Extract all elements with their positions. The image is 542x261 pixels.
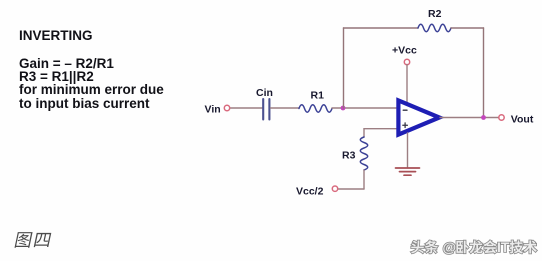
terminal Vout [499,115,504,120]
wire R3 to op-amp noninverting input [364,128,396,130]
terminal Vcc/2 [332,186,337,191]
terminal Vin [224,105,229,110]
watermark glyph 术 [524,240,537,253]
wire R3 top vertical [363,129,365,137]
resistor R1 [299,105,332,112]
wire R3 bottom vertical [363,170,365,189]
svg-text:Vin: Vin [205,104,221,116]
wire R3 to Vcc/2 terminal [338,188,364,190]
resistor R3 [360,137,367,170]
watermark glyph 头 [411,241,424,254]
figure caption 图四 [15,232,52,248]
watermark 头条@卧龙会IT技术 [411,239,537,255]
svg-text:R2: R2 [428,8,442,20]
svg-text:Vout: Vout [511,114,534,126]
wire Vin to Cin [230,107,263,109]
wire R1 to op-amp inverting input [332,107,396,109]
wire op-amp to ground [407,133,409,168]
op-amp plus sign [403,123,408,128]
svg-text:+Vcc: +Vcc [392,44,417,56]
junction node at R1 / feedback [341,106,346,111]
svg-text:R1: R1 [311,89,325,101]
caption glyph 四 [34,233,52,247]
watermark glyph 条 [425,240,438,253]
wire Cin to R1 [271,107,300,109]
svg-text:Cin: Cin [256,87,273,99]
formula text block [19,57,164,111]
heading INVERTING [19,28,93,43]
svg-text:@: @ [443,239,457,255]
terminal +Vcc [404,59,409,64]
watermark glyph 龙 [470,240,483,253]
svg-text:Vcc/2: Vcc/2 [296,186,324,198]
watermark glyph 会 [483,240,496,253]
op-amp U1 [398,100,439,134]
wire feedback top left segment [344,27,419,29]
wire feedback top right segment [451,27,484,29]
junction node at output / feedback [481,115,486,120]
caption glyph 图 [15,232,33,248]
ground [396,168,420,175]
op-amp minus sign [403,109,407,111]
wire feedback right vertical [483,28,485,118]
watermark glyph 技 [510,240,523,253]
watermark glyph 卧 [456,241,468,254]
svg-text:IT: IT [497,239,510,255]
capacitor Cin [263,99,269,120]
wire feedback left vertical [343,28,345,108]
svg-text:R3: R3 [342,150,356,162]
wire op-amp output [440,117,499,119]
wire +Vcc to op-amp [406,65,408,103]
resistor R2 [418,24,451,31]
